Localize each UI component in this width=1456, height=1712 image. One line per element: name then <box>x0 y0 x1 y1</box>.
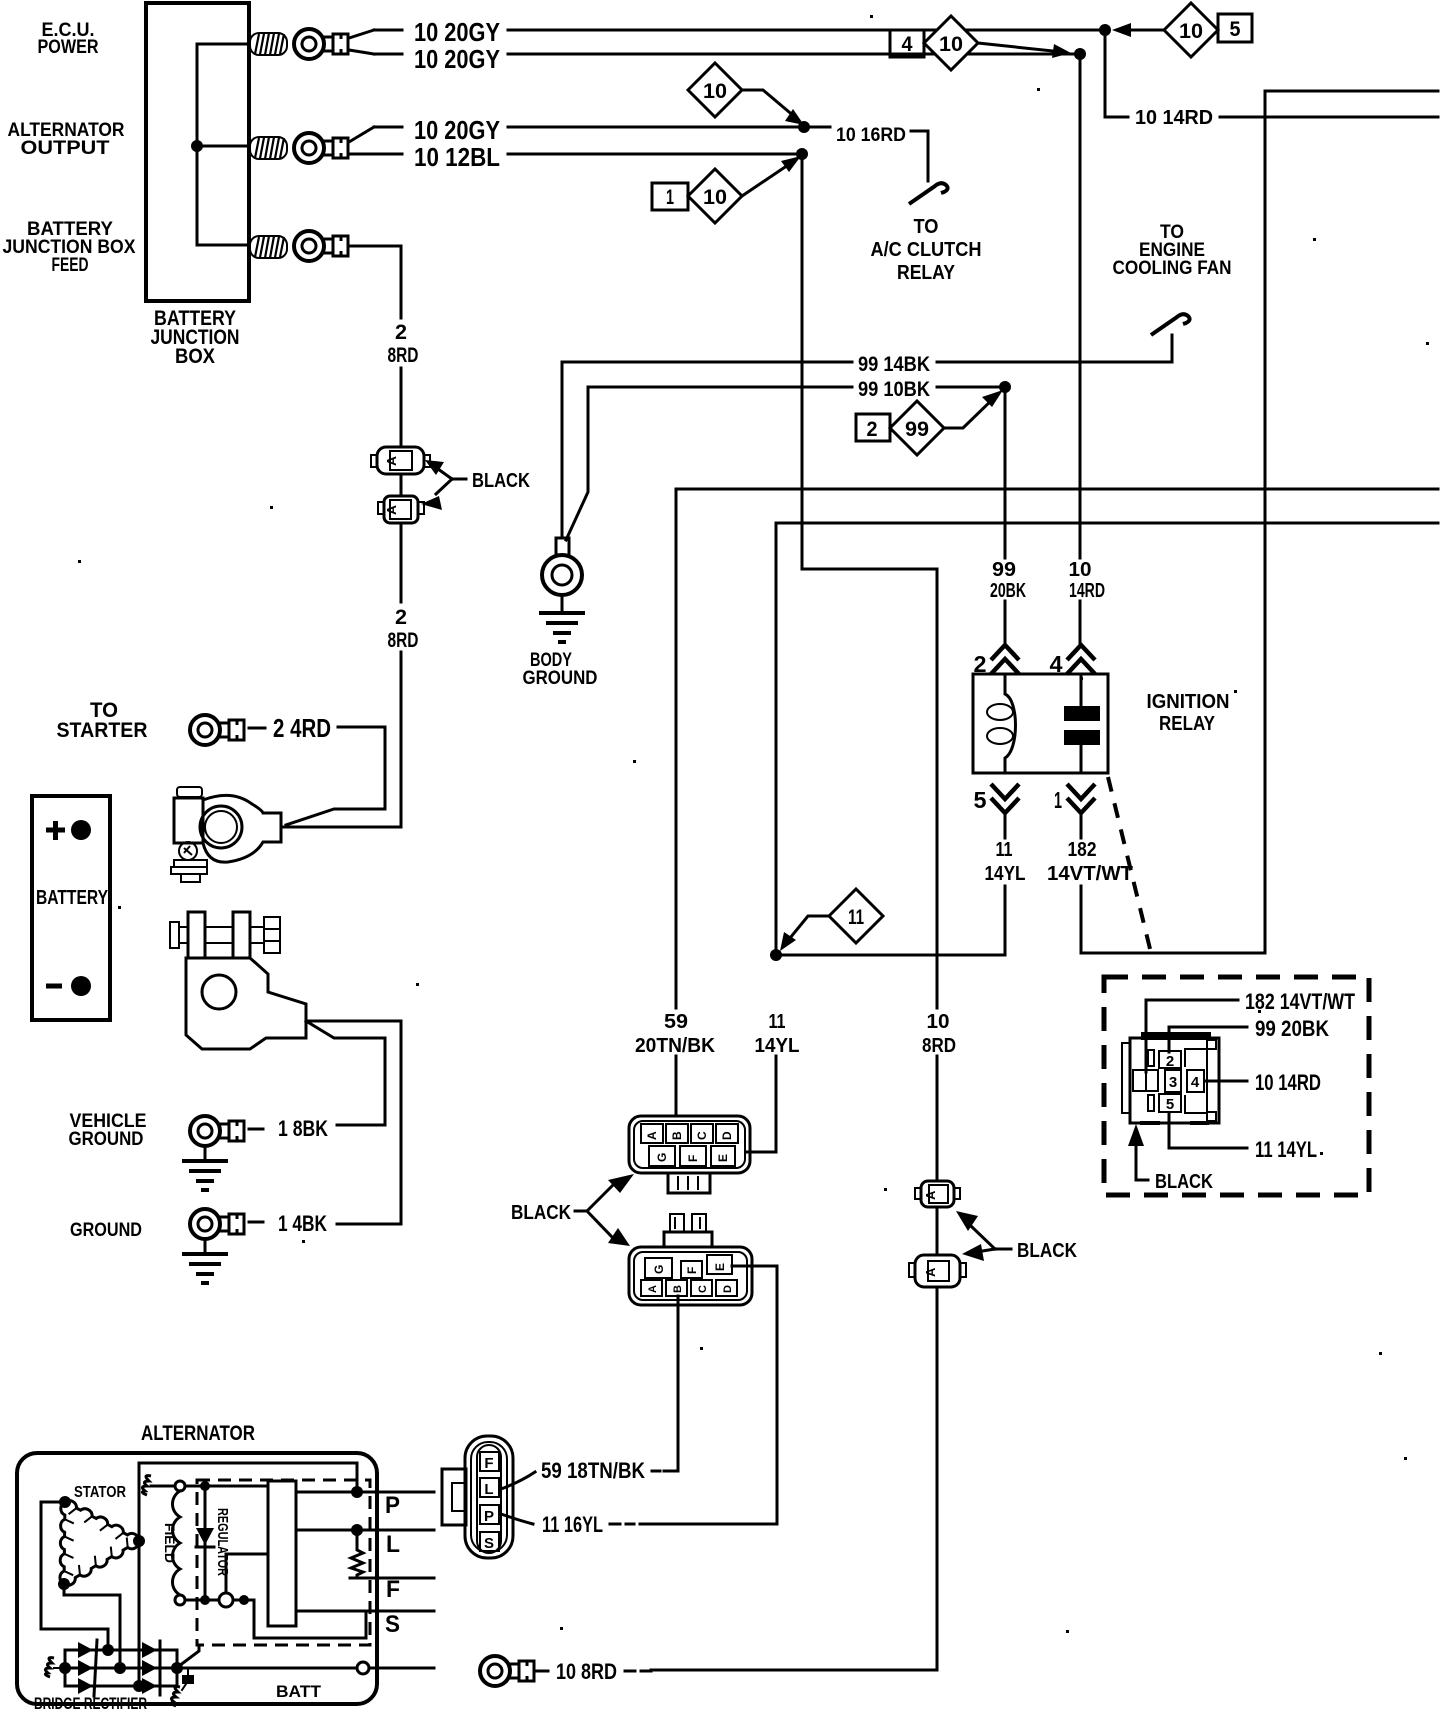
P output <box>296 1491 357 1494</box>
switch to A/C clutch relay <box>909 183 948 204</box>
rectifier output diagonal to regulator <box>179 1645 199 1666</box>
wire 99 20BK vertical into relay <box>1004 387 1007 645</box>
svg-text:STATOR: STATOR <box>74 1484 126 1501</box>
svg-text:1 4BK: 1 4BK <box>278 1211 327 1236</box>
junction node (10 20GY / fuse 10-5 / 10 14RD) <box>1099 24 1111 36</box>
svg-text:2: 2 <box>1166 1053 1174 1070</box>
wire 2 8RD from junction box feed down <box>283 246 401 827</box>
relay pin 5 connector chevrons <box>991 784 1019 813</box>
svg-text:99 10BK: 99 10BK <box>858 378 930 401</box>
svg-text:BLACK: BLACK <box>1017 1240 1077 1262</box>
fuse diamond 99 with tag 2 <box>856 390 1003 455</box>
label 2 4RD <box>249 727 265 730</box>
switch to engine cooling fan <box>1151 314 1190 335</box>
wire 99 14BK (left segment to body ground) <box>562 362 852 538</box>
svg-text:10 14RD: 10 14RD <box>1135 107 1213 129</box>
wire from lower connector pin E to 11 16YL <box>732 1266 777 1524</box>
svg-text:G: G <box>655 1153 669 1162</box>
stator phase C wire to rectifier middle row <box>64 1584 120 1668</box>
junction node wire 4 (10 12BL tap) <box>796 148 808 160</box>
wire 2 4RD to battery positive clamp <box>286 727 385 825</box>
svg-text:1 8BK: 1 8BK <box>278 1116 328 1141</box>
wire 11 16YL from pin P <box>501 1514 533 1524</box>
fork of ring 1 to two wires <box>349 30 374 54</box>
svg-text:11 14YL: 11 14YL <box>1255 1137 1317 1162</box>
wire 99 20BK (detail) <box>1169 1027 1247 1052</box>
junction node 99 10BK / 99 20BK <box>999 381 1011 393</box>
svg-text:RELAY: RELAY <box>1159 713 1216 735</box>
svg-text:D: D <box>720 1131 734 1140</box>
wire 10 14RD (detail) <box>1205 1080 1247 1083</box>
svg-text:REGULATOR: REGULATOR <box>214 1508 231 1576</box>
svg-text:A/C CLUTCH: A/C CLUTCH <box>871 239 982 261</box>
svg-text:G: G <box>652 1265 666 1274</box>
wire 59 20TN/BK to upper connector <box>675 1056 678 1116</box>
svg-text:BATTERY: BATTERY <box>36 887 109 909</box>
driver to regulator IC <box>226 1554 268 1593</box>
svg-text:10 20GY: 10 20GY <box>414 115 500 145</box>
svg-text:F: F <box>386 1576 400 1603</box>
svg-text:RELAY: RELAY <box>897 262 956 284</box>
svg-text:BATT: BATT <box>276 1682 322 1701</box>
wire 99 10BK (left segment to body ground) <box>566 387 852 540</box>
fork of ring 2 to two wires <box>349 127 374 154</box>
svg-text:1: 1 <box>666 186 674 209</box>
wire 99 10BK (right segment to junction) <box>937 386 1005 389</box>
svg-text:11 16YL: 11 16YL <box>542 1512 603 1537</box>
junction node wire 3 (10 16RD tap) <box>798 121 810 133</box>
svg-text:10: 10 <box>1179 20 1203 43</box>
svg-text:FEED: FEED <box>52 255 89 276</box>
svg-text:10: 10 <box>939 33 963 56</box>
svg-text:GROUND: GROUND <box>523 668 598 689</box>
svg-text:A: A <box>384 455 399 466</box>
svg-text:8RD: 8RD <box>388 344 419 367</box>
svg-text:99: 99 <box>992 559 1016 581</box>
wire 10 12BL vertical down to 10 8RD run <box>802 154 937 569</box>
battery negative terminal clamp <box>170 912 306 1049</box>
svg-text:10 8RD: 10 8RD <box>556 1659 617 1684</box>
svg-text:4: 4 <box>902 33 913 56</box>
svg-text:10 14RD: 10 14RD <box>1255 1070 1321 1095</box>
svg-text:14RD: 14RD <box>1069 580 1105 602</box>
svg-text:D: D <box>722 1285 734 1293</box>
wire 10 20GY #2 to junction <box>508 53 1080 56</box>
wire 10 14RD (top right) <box>1105 30 1128 117</box>
ring terminal ground <box>190 1209 244 1239</box>
svg-text:GROUND: GROUND <box>70 1220 142 1241</box>
svg-text:99 20BK: 99 20BK <box>1255 1016 1329 1041</box>
svg-text:TO: TO <box>914 216 939 238</box>
label 1 8BK <box>249 1128 263 1131</box>
svg-text:B: B <box>672 1285 684 1293</box>
fuse diamond 10 with tag 4 (to wire 2) <box>890 16 1071 70</box>
rectifier diodes right column <box>142 1642 157 1658</box>
label 1 4BK <box>249 1221 263 1224</box>
svg-text:10 16RD: 10 16RD <box>836 125 906 146</box>
ground symbol (body ground) <box>539 613 585 642</box>
body ground ring terminal <box>542 538 582 612</box>
svg-text:2: 2 <box>395 606 407 629</box>
fuse diamond 10 (to wire 3) <box>688 63 804 125</box>
wire 10 20GY #1 to junction <box>508 29 1105 32</box>
svg-text:8RD: 8RD <box>388 629 419 652</box>
svg-text:2 4RD: 2 4RD <box>273 713 331 743</box>
bus wire B (11 14YL) top run <box>776 523 1438 950</box>
svg-text:10: 10 <box>927 1011 950 1033</box>
svg-text:59: 59 <box>664 1011 688 1033</box>
label BLACK (inline connectors) with arrows <box>421 460 530 510</box>
regulator dashed box <box>197 1480 370 1645</box>
svg-text:5: 5 <box>1166 1096 1174 1113</box>
ring terminal at stud 2 <box>294 133 348 163</box>
svg-text:10: 10 <box>1069 559 1092 581</box>
svg-text:F: F <box>484 1455 493 1472</box>
svg-text:BRIDGE RECTIFIER: BRIDGE RECTIFIER <box>34 1694 147 1712</box>
ground symbol (vehicle ground) <box>204 1147 207 1160</box>
svg-text:P: P <box>385 1492 400 1519</box>
stud 1 (E.C.U. power, threaded) <box>250 33 287 55</box>
relay coil <box>1005 674 1016 773</box>
wire 10 12BL #4 <box>508 153 802 156</box>
svg-text:8RD: 8RD <box>922 1035 956 1057</box>
ring terminal vehicle ground <box>190 1116 244 1146</box>
svg-text:A: A <box>923 1190 938 1200</box>
relay pin 1 connector chevrons <box>1067 784 1095 813</box>
lower 8-pin connector <box>629 1214 752 1305</box>
wire to ground (1 4BK vertical) <box>337 1021 401 1224</box>
wire from negative clamp (two branches) <box>306 1021 401 1125</box>
svg-text:F: F <box>685 1267 699 1274</box>
svg-text:99 14BK: 99 14BK <box>858 353 930 376</box>
wire 10 16RD branch <box>804 126 830 129</box>
single-pin connector 2 (on 10 8RD) <box>909 1255 966 1287</box>
svg-text:14YL: 14YL <box>755 1035 800 1057</box>
battery + mark and post dot <box>46 821 65 840</box>
wire 10 20GY #3 <box>508 126 804 129</box>
wire 11 14YL from relay pin 5 <box>776 813 1005 955</box>
svg-text:10: 10 <box>703 186 727 209</box>
F output <box>350 1577 434 1580</box>
inline connector 2 on 2 8RD <box>378 496 424 523</box>
rectifier junction nodes <box>102 1644 114 1656</box>
svg-text:14YL: 14YL <box>985 863 1026 885</box>
svg-text:E: E <box>713 1263 727 1271</box>
svg-text:10: 10 <box>703 80 727 103</box>
svg-text:BOX: BOX <box>175 345 215 368</box>
upper 8-pin connector <box>629 1116 750 1193</box>
fuse diamond 10 with tag 5 (top right) <box>1112 3 1252 57</box>
svg-text:S: S <box>484 1535 494 1552</box>
svg-text:POWER: POWER <box>38 37 99 58</box>
svg-text:10 12BL: 10 12BL <box>414 142 500 172</box>
wire from lower connector pin B to 59 18TN/BK <box>677 1296 680 1471</box>
svg-text:A: A <box>647 1285 659 1293</box>
ring terminal at stud 1 <box>294 29 348 59</box>
label BLACK (detail) with arrow <box>1128 1124 1213 1193</box>
wire 10 8RD vertical through connectors <box>651 1056 937 1670</box>
S output <box>296 1610 434 1613</box>
wire 59 18TN/BK from pin L <box>501 1472 535 1489</box>
svg-text:20TN/BK: 20TN/BK <box>635 1035 716 1057</box>
svg-text:20BK: 20BK <box>990 580 1026 602</box>
svg-text:A: A <box>384 504 399 515</box>
ring terminal to starter <box>190 715 244 745</box>
svg-text:IGNITION: IGNITION <box>1147 691 1230 713</box>
svg-text:BLACK: BLACK <box>1155 1171 1213 1193</box>
wire 182 14VT/WT (detail) <box>1146 1000 1238 1072</box>
capacitor <box>187 1668 189 1674</box>
svg-text:L: L <box>484 1481 493 1498</box>
svg-text:COOLING FAN: COOLING FAN <box>1113 258 1232 279</box>
svg-text:99: 99 <box>905 418 929 441</box>
inner top bus to P terminal <box>139 1463 357 1492</box>
svg-text:BLACK: BLACK <box>511 1202 571 1224</box>
regulator diode <box>204 1486 207 1600</box>
rectifier right rail <box>176 1650 179 1686</box>
rectifier frame lead <box>45 1658 54 1677</box>
battery positive terminal clamp <box>171 787 281 882</box>
svg-text:L: L <box>386 1531 400 1558</box>
inline connector 1 on 2 8RD <box>371 447 430 474</box>
dashed leader from relay to connector detail <box>1108 777 1152 957</box>
BATT output line <box>357 1662 369 1674</box>
svg-text:OUTPUT: OUTPUT <box>21 138 110 159</box>
svg-text:B: B <box>670 1131 684 1140</box>
wire 11 14YL to upper connector <box>746 1056 776 1152</box>
svg-text:59 18TN/BK: 59 18TN/BK <box>541 1458 645 1483</box>
bus wire A (59 20TN/BK) top run <box>676 489 1438 1008</box>
svg-text:A: A <box>923 1267 938 1277</box>
svg-text:182: 182 <box>1068 839 1097 861</box>
relay contact <box>1080 674 1083 773</box>
junction node wire 2 to ignition relay <box>1074 48 1086 60</box>
regulator IC <box>268 1481 296 1626</box>
ignition relay box <box>973 674 1108 773</box>
svg-text:BLACK: BLACK <box>472 470 530 492</box>
svg-text:4: 4 <box>1191 1074 1200 1091</box>
fuse diamond 10 with tag 1 (to wire 4) <box>652 156 801 223</box>
battery junction box inner bus bracket <box>197 44 249 245</box>
svg-text:10 20GY: 10 20GY <box>414 44 500 74</box>
label BLACK (8-pin connectors) with arrows <box>511 1174 634 1246</box>
ring terminal 10 8RD <box>480 1656 534 1686</box>
svg-text:5: 5 <box>974 787 987 813</box>
single-pin connector 1 (on 10 8RD) <box>915 1181 960 1207</box>
stator delta winding <box>60 1501 139 1586</box>
svg-text:14VT/WT: 14VT/WT <box>1047 863 1133 885</box>
svg-text:S: S <box>385 1611 400 1638</box>
relay pin 2 connector chevrons <box>991 645 1019 674</box>
stud 2 (alternator output, threaded) <box>250 137 287 159</box>
field top line into regulator <box>185 1485 268 1488</box>
ground symbol (ground) <box>204 1240 207 1253</box>
svg-text:F: F <box>686 1155 700 1162</box>
junction dot on inner bus <box>191 140 203 152</box>
svg-text:11: 11 <box>848 906 864 929</box>
wire from ring 3 to corner <box>349 245 401 248</box>
svg-text:11: 11 <box>996 839 1013 861</box>
wire 11 14YL (detail) <box>1169 1113 1247 1148</box>
stator vertex nodes <box>59 1496 71 1508</box>
svg-text:FIELD: FIELD <box>162 1523 178 1563</box>
svg-text:5: 5 <box>1230 18 1241 41</box>
svg-text:A: A <box>645 1131 659 1140</box>
battery box <box>32 796 110 1020</box>
relay pin 4 connector chevrons <box>1067 645 1095 674</box>
svg-text:C: C <box>697 1285 709 1293</box>
svg-text:1: 1 <box>1054 787 1062 813</box>
alternator case <box>17 1453 377 1704</box>
FLPS connector <box>442 1436 513 1558</box>
stator phase B wire (to top bus and rectifier bottom row) <box>138 1463 141 1686</box>
stator phase A wire to rectifier top row <box>41 1502 108 1650</box>
rectifier diodes left column <box>78 1642 93 1658</box>
field frame lead <box>142 1476 151 1495</box>
ring terminal at stud 3 <box>294 231 348 261</box>
wire 99 14BK (right segment to cooling fan switch) <box>937 335 1172 362</box>
wire 182 14VT/WT from relay pin 1 <box>1081 91 1438 953</box>
resistor L to F <box>351 1530 363 1578</box>
fuse diamond 11 <box>780 889 883 951</box>
stud 3 (battery junction box feed, threaded) <box>250 236 287 258</box>
svg-text:2: 2 <box>867 418 878 441</box>
junction node 11 14YL <box>770 949 782 961</box>
svg-text:ALTERNATOR: ALTERNATOR <box>141 1422 255 1445</box>
field winding <box>175 1481 185 1491</box>
svg-text:E: E <box>716 1154 730 1162</box>
svg-text:P: P <box>484 1508 494 1525</box>
svg-text:C: C <box>695 1131 709 1140</box>
svg-text:11: 11 <box>769 1011 786 1033</box>
svg-text:10 20GY: 10 20GY <box>414 17 500 47</box>
label BLACK (single-pin connectors) with arrows <box>956 1211 1077 1262</box>
svg-text:GROUND: GROUND <box>69 1129 144 1150</box>
svg-text:3: 3 <box>1169 1074 1177 1091</box>
battery junction box <box>146 3 249 301</box>
svg-text:182 14VT/WT: 182 14VT/WT <box>1245 989 1355 1014</box>
wire 10 8RD vertical (upper) <box>936 569 939 1008</box>
svg-text:2: 2 <box>395 321 407 344</box>
L output <box>296 1529 434 1532</box>
battery - mark and post dot <box>46 984 62 989</box>
field bottom line with driver <box>185 1599 220 1602</box>
bridge rectifier rows <box>62 1650 357 1686</box>
svg-text:STARTER: STARTER <box>57 719 148 742</box>
rectifier left rail <box>64 1650 67 1686</box>
wire 10 14RD vertical into relay <box>1079 54 1082 645</box>
dashed detail box <box>1104 977 1369 1195</box>
relay connector (cavity view) <box>1122 1032 1219 1123</box>
